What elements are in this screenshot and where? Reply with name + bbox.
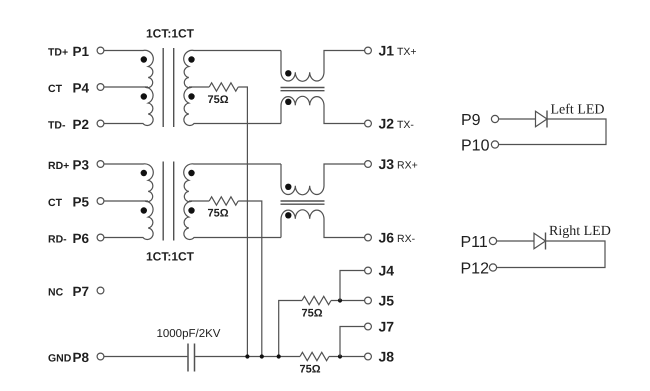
wire node to J4 <box>340 271 365 301</box>
vertical V3 gnd to R3 <box>279 301 302 357</box>
transformer T1 secondary lower winding <box>184 87 281 125</box>
pin P7 <box>97 287 104 294</box>
pin J7 <box>365 323 372 330</box>
svg-text:P8: P8 <box>73 350 90 365</box>
resistor R4 75ohm <box>300 352 329 360</box>
resistor R1 75ohm <box>209 83 238 91</box>
T1 secondary dot upper <box>188 56 194 62</box>
svg-text:P9: P9 <box>461 112 481 129</box>
T2 primary dot lower <box>141 207 147 213</box>
wire P9 to LED1 <box>499 118 536 120</box>
junction V1-gnd <box>245 354 249 358</box>
wire R4 to J8 <box>329 356 365 358</box>
pin J2 <box>365 120 372 127</box>
svg-text:J2: J2 <box>379 116 395 132</box>
svg-text:RD-: RD- <box>48 234 67 246</box>
transformer T2 core <box>163 162 174 241</box>
wire node to J7 <box>340 327 365 357</box>
wire P8 to C1 <box>104 356 187 358</box>
T2 secondary dot lower <box>188 207 194 213</box>
resistor R3 75ohm <box>302 296 331 304</box>
pin J4 <box>365 267 372 274</box>
pin J8 <box>365 353 372 360</box>
wire R2 to vertical V2 <box>238 201 262 357</box>
svg-text:P5: P5 <box>73 194 90 209</box>
choke L2 bottom winding <box>281 210 365 238</box>
T1 primary dot upper <box>141 56 147 62</box>
svg-text:J3: J3 <box>379 156 395 172</box>
svg-text:P7: P7 <box>73 284 90 299</box>
wire T2 secondary CT rail to R2 <box>189 200 209 202</box>
svg-text:NC: NC <box>48 287 64 299</box>
wire R1 to vertical V1 <box>238 87 247 357</box>
svg-text:1000pF/2KV: 1000pF/2KV <box>157 328 221 340</box>
pin P1 <box>97 47 104 54</box>
pin P5 <box>97 198 104 205</box>
transformer T1 core <box>163 48 174 127</box>
pin P8 <box>97 353 104 360</box>
choke L1 core lines <box>281 88 325 91</box>
choke L2 core lines <box>281 201 325 204</box>
svg-text:P2: P2 <box>73 117 90 132</box>
pin P12 <box>489 264 496 271</box>
resistor R2 75ohm <box>209 197 238 205</box>
wire R3 to J5 junction <box>331 300 365 302</box>
svg-text:P4: P4 <box>73 80 90 95</box>
svg-text:P6: P6 <box>73 231 90 246</box>
svg-text:J7: J7 <box>379 319 395 335</box>
transformer T2 primary lower winding (P5-P6) <box>104 201 153 239</box>
svg-text:P11: P11 <box>461 234 488 251</box>
junction J4/J5 node <box>338 298 342 302</box>
svg-text:TX-: TX- <box>397 119 414 131</box>
svg-text:CT: CT <box>48 83 63 95</box>
pin P9 <box>491 115 498 122</box>
pin P6 <box>97 234 104 241</box>
svg-text:P12: P12 <box>461 261 490 278</box>
T1 secondary dot lower <box>188 93 194 99</box>
wire P5 / T2 primary CT rail <box>104 200 148 202</box>
wire T1 secondary CT rail to R1 <box>189 86 209 88</box>
svg-text:J8: J8 <box>379 349 395 365</box>
pin J3 <box>365 161 372 168</box>
svg-text:P10: P10 <box>461 138 490 155</box>
wire LED2 to P12 <box>497 241 605 268</box>
svg-text:J6: J6 <box>379 230 395 246</box>
T1 primary dot lower <box>141 93 147 99</box>
svg-text:J1: J1 <box>379 43 395 59</box>
svg-text:TX+: TX+ <box>397 46 417 58</box>
svg-text:75Ω: 75Ω <box>208 208 229 220</box>
junction J7/J8 node <box>338 354 342 358</box>
svg-text:75Ω: 75Ω <box>208 94 229 106</box>
transformer T1 secondary upper winding <box>184 50 281 87</box>
svg-text:TD-: TD- <box>48 120 66 132</box>
svg-text:Left LED: Left LED <box>551 103 605 118</box>
pin P4 <box>97 84 104 91</box>
wire LED1 to P10 <box>499 119 606 145</box>
svg-text:P3: P3 <box>73 157 90 172</box>
junction V2-gnd <box>260 354 264 358</box>
svg-text:75Ω: 75Ω <box>302 308 323 320</box>
pin P11 <box>489 237 496 244</box>
pin P3 <box>97 161 104 168</box>
pin J6 <box>365 234 372 241</box>
svg-text:P1: P1 <box>73 44 90 59</box>
T2 secondary dot upper <box>188 170 194 176</box>
choke L2 top dot <box>285 184 291 190</box>
pin J1 <box>365 47 372 54</box>
svg-text:TD+: TD+ <box>48 47 68 59</box>
capacitor C1 plates <box>188 344 195 372</box>
transformer T1 primary lower winding (P4-P2) <box>104 87 153 125</box>
svg-text:J5: J5 <box>379 293 395 309</box>
junction V3-gnd <box>277 354 281 358</box>
T2 primary dot upper <box>141 170 147 176</box>
svg-text:1CT:1CT: 1CT:1CT <box>146 250 195 264</box>
choke L1 bottom winding <box>281 96 365 123</box>
transformer T2 primary upper winding (P3-P5) <box>104 164 153 202</box>
svg-text:RD+: RD+ <box>48 160 69 172</box>
wire C1 to ground bus <box>195 356 300 358</box>
transformer T2 secondary upper winding <box>184 164 281 202</box>
pin P2 <box>97 120 104 127</box>
LED1 diode triangle <box>536 111 548 127</box>
LED2 diode triangle <box>534 233 546 249</box>
choke L1 top dot <box>285 70 291 76</box>
svg-text:Right LED: Right LED <box>549 224 611 239</box>
pin P10 <box>491 141 498 148</box>
svg-text:RX+: RX+ <box>397 160 418 172</box>
svg-text:RX-: RX- <box>397 233 416 245</box>
choke L2 bottom dot <box>285 212 291 218</box>
choke L2 top winding <box>281 164 365 195</box>
wire P11 to LED2 <box>497 240 534 242</box>
choke L1 bottom dot <box>285 99 291 105</box>
svg-text:1CT:1CT: 1CT:1CT <box>146 27 195 41</box>
svg-text:CT: CT <box>48 197 63 209</box>
choke L1 top winding <box>281 51 365 82</box>
svg-text:GND: GND <box>48 353 72 365</box>
transformer T2 secondary lower winding <box>184 201 281 239</box>
svg-text:75Ω: 75Ω <box>300 364 321 376</box>
wire P4 / T1 primary CT rail <box>104 86 148 88</box>
LED2 cathode bar <box>545 233 547 250</box>
pin J5 <box>365 297 372 304</box>
svg-text:J4: J4 <box>379 263 395 279</box>
LED1 cathode bar <box>546 111 548 128</box>
transformer T1 primary upper winding (P1-P4) <box>104 50 153 87</box>
